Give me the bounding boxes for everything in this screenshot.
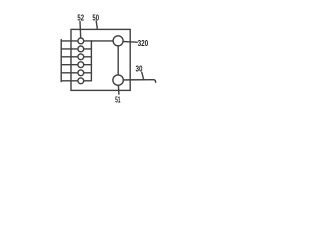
roller 320 (upper circle) [113,36,123,46]
wire (stub 2 to inner bus) [84,48,92,50]
leader line for label 51 [117,85,120,94]
wire (rung 6) [61,80,78,82]
svg-text:50: 50 [92,13,99,23]
contact circle 4 [78,62,84,68]
wire (rung 4) [61,64,78,66]
contact circle 6 [78,78,84,84]
contact circle 2 [78,46,84,52]
wire (output line to 30) [123,79,154,81]
svg-text:52: 52 [77,13,84,23]
leader line for label 320 [123,41,137,44]
wire (outer bus vertical) [60,40,62,82]
svg-text:51: 51 [115,95,121,105]
leader line for label 52 [79,22,82,38]
wire (rung 2) [61,48,78,50]
wire (stub 4 to inner bus) [84,64,92,66]
wire (connector between 320 and 51) [117,46,119,75]
wire (rung 1) [61,40,78,42]
leader line for label 50 [96,21,97,29]
wire (line to circle 320) [91,40,113,42]
wire (rung 5) [61,72,78,74]
contact circle 1 [78,38,84,44]
wire (hook tip of line 30) [154,80,156,83]
wire (stub 1 to inner bus) [84,40,92,42]
wire (stub 5 to inner bus) [84,72,92,74]
wire (stub 6 to inner bus) [84,80,92,82]
roller 51 (lower circle) [113,75,123,85]
wire (rung 3) [61,56,78,58]
wire (stub 3 to inner bus) [84,56,92,58]
box 50 (housing rectangle) [71,29,130,90]
leader line for label 30 [142,72,144,79]
wire (inner bus vertical) [90,41,92,81]
contact circle 3 [78,54,84,60]
svg-text:320: 320 [138,38,149,48]
contact circle 5 [78,70,84,76]
svg-text:30: 30 [136,64,143,74]
